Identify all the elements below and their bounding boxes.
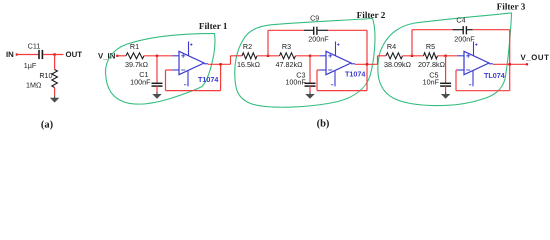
svg-text:Filter 1: Filter 1 (199, 21, 228, 31)
svg-text:(a): (a) (41, 119, 54, 130)
svg-text:R4: R4 (387, 42, 396, 51)
svg-text:200nF: 200nF (454, 35, 475, 44)
svg-text:V_OUT: V_OUT (521, 53, 550, 62)
svg-text:16.5kΩ: 16.5kΩ (237, 60, 261, 69)
svg-text:(b): (b) (317, 118, 330, 129)
svg-text:C11: C11 (28, 41, 41, 50)
svg-text:R10: R10 (39, 71, 52, 80)
svg-text:10nF: 10nF (423, 77, 440, 86)
svg-text:100nF: 100nF (130, 77, 151, 86)
svg-text:1µF: 1µF (24, 61, 37, 70)
svg-text:47.82kΩ: 47.82kΩ (276, 60, 304, 69)
svg-text:1MΩ: 1MΩ (26, 80, 42, 89)
svg-text:Filter 3: Filter 3 (497, 1, 526, 11)
svg-text:207.8kΩ: 207.8kΩ (418, 60, 446, 69)
svg-text:R1: R1 (130, 42, 139, 51)
svg-text:200nF: 200nF (308, 34, 329, 43)
svg-text:R2: R2 (243, 42, 252, 51)
svg-text:R3: R3 (282, 42, 291, 51)
svg-text:39.7kΩ: 39.7kΩ (125, 60, 149, 69)
svg-text:T1074: T1074 (345, 69, 365, 78)
svg-text:100nF: 100nF (285, 78, 306, 87)
svg-text:T1074: T1074 (198, 75, 218, 84)
svg-text:IN: IN (6, 50, 14, 59)
svg-text:C4: C4 (456, 16, 465, 25)
svg-text:OUT: OUT (66, 50, 83, 59)
svg-text:R5: R5 (426, 42, 435, 51)
svg-text:38.09kΩ: 38.09kΩ (384, 60, 412, 69)
svg-text:C9: C9 (310, 13, 319, 22)
svg-text:TL074: TL074 (484, 71, 505, 80)
